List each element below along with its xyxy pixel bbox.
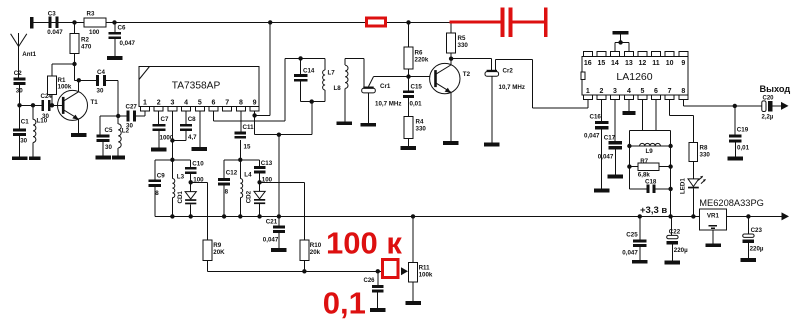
wire +3.3V supply rail: [155, 215, 700, 217]
ground under Cr2: [484, 143, 500, 147]
svg-text:VR1: VR1: [707, 212, 720, 219]
node: rail/C25 junction: [638, 214, 642, 218]
inductor L4: [239, 160, 241, 179]
node: bus/C6 junction: [112, 20, 116, 24]
svg-text:330: 330: [416, 126, 427, 133]
capacitor C5: [99, 116, 101, 135]
capacitor C2: [14, 77, 26, 80]
ground under Cr1: [361, 123, 377, 127]
IC U1 TA7358AP body: [139, 67, 259, 107]
svg-text:R6: R6: [415, 50, 423, 57]
svg-text:3: 3: [613, 88, 617, 95]
svg-text:6: 6: [654, 88, 658, 95]
wire L8 top to Cr1: [345, 58, 364, 60]
ground under C16: [594, 189, 610, 193]
node: R2 bottom junction: [72, 62, 76, 66]
node: pin3/tank top rail: [170, 158, 174, 162]
node: varactor tap CD1: [189, 180, 193, 184]
svg-text:14: 14: [611, 60, 619, 67]
node: supply riser junction: [277, 133, 281, 137]
svg-text:L9: L9: [646, 148, 654, 155]
svg-text:30: 30: [126, 123, 133, 130]
svg-text:R11: R11: [419, 264, 431, 271]
inductor L3: [171, 160, 173, 179]
svg-text:3: 3: [170, 100, 174, 107]
svg-text:C5: C5: [105, 127, 113, 134]
svg-text:20K: 20K: [213, 249, 225, 256]
capacitor C17 on LA1260 pin 3: [614, 100, 616, 142]
svg-text:R4: R4: [416, 119, 424, 126]
svg-text:12: 12: [639, 60, 647, 67]
wire pin1 TA7358 to C27: [144, 111, 146, 116]
resistor R1: [48, 76, 57, 95]
svg-text:0,047: 0,047: [263, 236, 279, 243]
ground under C5: [95, 156, 111, 160]
capacitor C7 on pin 2: [158, 111, 160, 124]
svg-text:L4: L4: [244, 171, 252, 178]
ground under T1 emitter: [71, 133, 87, 137]
capacitor C16 on LA1260 pin 2: [600, 100, 602, 121]
inductor L9: [629, 145, 670, 147]
LA1260 bottom pin pads: [583, 95, 592, 100]
svg-text:100: 100: [89, 29, 100, 36]
svg-text:ME6208A33PG: ME6208A33PG: [699, 198, 764, 208]
svg-text:C14: C14: [303, 67, 315, 74]
svg-text:7: 7: [225, 100, 229, 107]
wire VR1 ground: [712, 230, 714, 243]
capacitor C22: [671, 216, 673, 235]
svg-text:100k: 100k: [58, 84, 72, 91]
svg-text:330: 330: [700, 152, 711, 159]
node: tank bottom junction: [310, 99, 314, 103]
capacitor C24: [41, 100, 44, 111]
ground under pin 4: [622, 111, 635, 115]
svg-text:T2: T2: [463, 71, 471, 78]
svg-text:5: 5: [198, 100, 202, 107]
varactor diode CD2: [254, 191, 265, 198]
varactor diode CD1: [185, 192, 196, 199]
wire T2 collector to Cr2: [451, 58, 491, 60]
capacitor C21: [278, 216, 280, 225]
node: L4 bottom on rail: [238, 214, 242, 218]
node: C27/C5/L2 junction: [116, 114, 120, 118]
ground under C26: [370, 308, 386, 312]
svg-text:100k: 100k: [419, 271, 433, 278]
node: rail/LED junction: [691, 214, 695, 218]
capacitor C3: [49, 17, 52, 28]
svg-text:5: 5: [640, 88, 644, 95]
wire L8 bottom to ground: [344, 95, 346, 121]
svg-text:100 к: 100 к: [326, 226, 402, 261]
svg-text:8: 8: [225, 188, 229, 195]
node: CD1 bottom on rail: [189, 214, 193, 218]
svg-text:C27: C27: [126, 104, 138, 111]
LA1260 top pin pads: [583, 52, 592, 57]
node: C11 bottom on tank2 rail: [238, 158, 242, 162]
wire VR1 output: [726, 215, 782, 217]
node: C12 bottom on rail: [222, 214, 226, 218]
svg-text:8: 8: [155, 190, 159, 197]
svg-text:15: 15: [598, 60, 606, 67]
svg-text:7: 7: [668, 88, 672, 95]
node: L3 bottom on rail: [170, 214, 174, 218]
ground under C6: [107, 56, 123, 60]
svg-text:6,8k: 6,8k: [638, 172, 651, 179]
svg-text:C21: C21: [266, 218, 278, 225]
svg-text:R3: R3: [87, 11, 95, 18]
svg-text:0,047: 0,047: [622, 250, 638, 257]
svg-text:R2: R2: [81, 37, 89, 44]
svg-text:R10: R10: [310, 242, 322, 249]
red supply bus segment: [450, 21, 502, 24]
capacitor C9: [154, 160, 156, 180]
ground under C19: [728, 157, 744, 161]
svg-text:6: 6: [212, 100, 216, 107]
red terminal bar (added): [544, 7, 548, 37]
svg-text:C16: C16: [590, 114, 602, 121]
wire LA1260 pin 4 to ground: [628, 100, 630, 111]
node: rail/R11 junction: [411, 214, 415, 218]
ceramic filter Cr2: [485, 72, 499, 77]
node: VR1 out/C23 junction: [746, 214, 750, 218]
node: bus/R2 junction: [72, 20, 76, 24]
svg-text:C20: C20: [763, 96, 775, 102]
svg-text:10: 10: [666, 60, 674, 67]
svg-text:C15: C15: [411, 83, 423, 90]
capacitor C10: [190, 160, 192, 167]
svg-text:30: 30: [97, 88, 104, 95]
capacitor C8 on pin 4: [185, 111, 187, 124]
svg-text:9: 9: [253, 100, 257, 107]
svg-text:C19: C19: [737, 126, 749, 133]
svg-text:L3: L3: [177, 174, 185, 181]
svg-text:C9: C9: [157, 172, 165, 179]
resistor R5: [450, 22, 452, 33]
inductor L10: [32, 105, 34, 119]
svg-text:T1: T1: [91, 99, 99, 106]
ground under T2 emitter: [443, 141, 459, 145]
node: T1 collector: [77, 78, 81, 82]
svg-text:470: 470: [81, 44, 92, 51]
svg-text:0.047: 0.047: [47, 29, 63, 36]
wire tuning line to potentiometer: [208, 270, 382, 272]
svg-text:C7: C7: [161, 116, 169, 123]
svg-text:10,7 MHz: 10,7 MHz: [375, 100, 401, 107]
svg-text:16: 16: [584, 60, 592, 67]
resistor R9: [203, 240, 212, 260]
node: varactor tap CD2: [257, 180, 261, 184]
resistor R8 from LA1260 pin 7: [669, 100, 671, 116]
ground under C23: [741, 258, 757, 262]
capacitor C18: [629, 188, 646, 190]
svg-text:C6: C6: [118, 25, 126, 32]
svg-text:R7: R7: [640, 158, 648, 165]
resistor R6: [408, 22, 410, 47]
svg-text:0,047: 0,047: [598, 153, 614, 160]
wire R2 to collector node: [74, 64, 76, 80]
node: input node: [17, 103, 21, 107]
svg-text:C13: C13: [261, 160, 273, 167]
svg-text:11: 11: [652, 60, 660, 67]
svg-text:9: 9: [681, 60, 685, 67]
ground under R4: [401, 146, 417, 150]
svg-text:1: 1: [586, 88, 590, 95]
svg-text:2,2µ: 2,2µ: [762, 114, 774, 120]
node: rail/C22 junction: [668, 214, 672, 218]
svg-text:Cr1: Cr1: [380, 83, 391, 90]
ground under C25: [632, 260, 648, 264]
node: R10 bottom junction: [302, 269, 306, 273]
svg-text:30: 30: [20, 137, 27, 144]
detector tank top rail: [155, 159, 191, 161]
svg-text:1: 1: [143, 100, 147, 107]
svg-text:CD1: CD1: [177, 191, 184, 204]
svg-text:R9: R9: [213, 242, 221, 249]
node: audio output junction: [733, 104, 737, 108]
svg-text:4: 4: [184, 100, 188, 107]
capacitor C19: [734, 106, 736, 135]
ground under R11: [405, 301, 421, 305]
svg-text:C18: C18: [645, 179, 657, 186]
ground under L2: [112, 156, 125, 160]
quad network left rail: [628, 130, 630, 189]
svg-text:C23: C23: [751, 227, 763, 234]
wires LA1260 pins 14,13 to top ground bar: [614, 42, 616, 51]
capacitor C25: [639, 216, 641, 239]
detector tank 2 top rail: [224, 159, 259, 161]
red open rectangle on bus (added resistor placeholder): [367, 18, 386, 26]
svg-text:13: 13: [625, 60, 633, 67]
wire pin3 TA7358 down to tank: [171, 111, 173, 160]
LED LED1: [688, 179, 699, 187]
ground under C7: [151, 148, 167, 152]
svg-text:C10: C10: [192, 161, 204, 168]
svg-text:10,7 MHz: 10,7 MHz: [499, 84, 525, 91]
svg-text:TA7358AP: TA7358AP: [172, 81, 221, 92]
node: rail/C21 junction: [277, 214, 281, 218]
svg-text:30: 30: [105, 144, 112, 151]
capacitor C4: [96, 75, 99, 86]
node: T2 base bias node: [406, 74, 410, 78]
svg-text:30: 30: [42, 113, 49, 120]
ground under pin5: [192, 147, 208, 151]
wire pin6 TA7358 to oscillator tank top: [213, 111, 215, 121]
svg-text:C1: C1: [21, 119, 29, 126]
wire pin9 down to oscillator tank bottom: [254, 115, 256, 134]
output arrow: [772, 105, 781, 107]
capacitor C27: [127, 111, 130, 122]
inductor L2: [117, 116, 119, 124]
resistor R3: [84, 18, 106, 27]
svg-text:15: 15: [244, 144, 251, 151]
transistor T2: [430, 63, 460, 93]
svg-text:C22: C22: [669, 228, 681, 235]
svg-text:C25: C25: [626, 231, 638, 238]
tank: top rail: [285, 57, 325, 59]
svg-text:Выход: Выход: [760, 84, 791, 94]
svg-text:20k: 20k: [310, 249, 321, 256]
red capacitor (added): [500, 7, 504, 37]
inductor L8 (coupled): [344, 59, 346, 66]
capacitor C23: [747, 216, 749, 234]
ground under C1: [12, 156, 28, 160]
wire supply riser down to +3.3V rail: [278, 135, 280, 217]
capacitor C6: [114, 22, 116, 31]
resistor R11 (potentiometer): [412, 216, 414, 262]
capacitor C13: [258, 160, 260, 166]
transistor T1: [58, 90, 88, 120]
svg-text:8: 8: [681, 88, 685, 95]
svg-text:Ant1: Ant1: [22, 51, 36, 58]
svg-text:+3,3 в: +3,3 в: [640, 205, 667, 216]
svg-text:C11: C11: [243, 124, 255, 131]
svg-text:C4: C4: [97, 69, 105, 76]
svg-text:C26: C26: [364, 278, 376, 284]
node: C26 junction: [376, 269, 380, 273]
ground under L10: [29, 156, 41, 160]
svg-text:C3: C3: [48, 11, 56, 18]
node: pin3/C8 junction: [170, 138, 174, 142]
input arrow (power in): [782, 212, 790, 220]
wire tap2 to R10: [260, 181, 305, 183]
svg-text:8: 8: [239, 100, 243, 107]
svg-text:CD2: CD2: [246, 190, 253, 203]
svg-text:C2: C2: [14, 70, 22, 77]
svg-text:C8: C8: [188, 116, 196, 123]
svg-text:0,01: 0,01: [737, 144, 750, 151]
wire top supply bus (black section): [34, 21, 450, 23]
svg-text:C12: C12: [226, 169, 238, 176]
svg-text:LED1: LED1: [680, 178, 687, 194]
node: T2 collector: [449, 57, 453, 61]
antenna Ant1: [11, 34, 19, 47]
capacitor C20 output coupling: [735, 105, 762, 107]
svg-text:R5: R5: [458, 35, 466, 42]
svg-text:220k: 220k: [415, 57, 429, 64]
svg-text:2: 2: [157, 100, 161, 107]
capacitor C14: [300, 58, 302, 74]
svg-text:L7: L7: [328, 70, 336, 77]
node: C14 top: [298, 56, 302, 60]
svg-text:LA1260: LA1260: [616, 71, 652, 83]
svg-text:0,01: 0,01: [410, 101, 423, 108]
wire LA1260 pin 8 to output node: [682, 100, 684, 106]
svg-text:4,7: 4,7: [188, 134, 197, 141]
wiper arrow into R11: [401, 267, 408, 275]
IC U2 LA1260 body: [582, 56, 688, 95]
node: bus junction above pin9: [268, 20, 272, 24]
svg-text:L8: L8: [334, 85, 342, 92]
ground bar above LA1260: [613, 31, 629, 35]
svg-text:0,047: 0,047: [584, 132, 600, 139]
resistor R10: [300, 240, 309, 260]
svg-text:2: 2: [599, 88, 603, 95]
svg-text:330: 330: [458, 42, 469, 49]
resistor R2: [74, 22, 76, 33]
quad detector network: pin5/pin6 wires: [641, 100, 643, 131]
capacitor C26: [377, 271, 379, 285]
tank: bottom rail: [301, 101, 326, 103]
node: bus/R6 junction: [406, 20, 410, 24]
svg-text:220µ: 220µ: [674, 247, 688, 254]
ground under L8: [337, 121, 353, 125]
svg-text:0,047: 0,047: [120, 40, 136, 47]
ceramic filter Cr1: [362, 88, 376, 93]
capacitor C15: [408, 77, 410, 91]
red open square (added resistor 100k): [383, 260, 399, 278]
wire pin9 TA7358 to supply bus: [254, 111, 256, 115]
svg-text:C17: C17: [604, 135, 616, 142]
wire tap to R9: [191, 181, 208, 183]
antenna input terminal bar: [30, 17, 34, 29]
wire pin5 TA7358 to ground: [199, 111, 201, 147]
ground under VR1: [705, 243, 721, 247]
node: CD2 bottom on rail: [257, 214, 261, 218]
svg-text:Cr2: Cr2: [503, 67, 514, 74]
quad network right rail: [670, 130, 672, 216]
svg-text:R8: R8: [700, 145, 708, 152]
svg-text:220µ: 220µ: [750, 246, 764, 253]
capacitor C11 on pin 8: [240, 111, 242, 132]
TA7358AP pin pads: [141, 106, 150, 111]
svg-text:0,1: 0,1: [323, 286, 366, 321]
svg-text:4: 4: [627, 88, 631, 95]
wire Cr2 output to LA1260 pin1: [494, 60, 496, 70]
resistor R7: [629, 166, 670, 168]
inductor L7: [324, 58, 326, 70]
ground under C21: [271, 248, 287, 252]
node: R1/base junction: [50, 103, 54, 107]
capacitor C12: [223, 160, 225, 178]
ground under C22: [665, 261, 681, 265]
ground under C17: [608, 175, 624, 179]
wire Cr1 to T2 base node: [369, 77, 374, 87]
capacitor C1: [19, 105, 21, 128]
resistor R4: [404, 116, 413, 138]
